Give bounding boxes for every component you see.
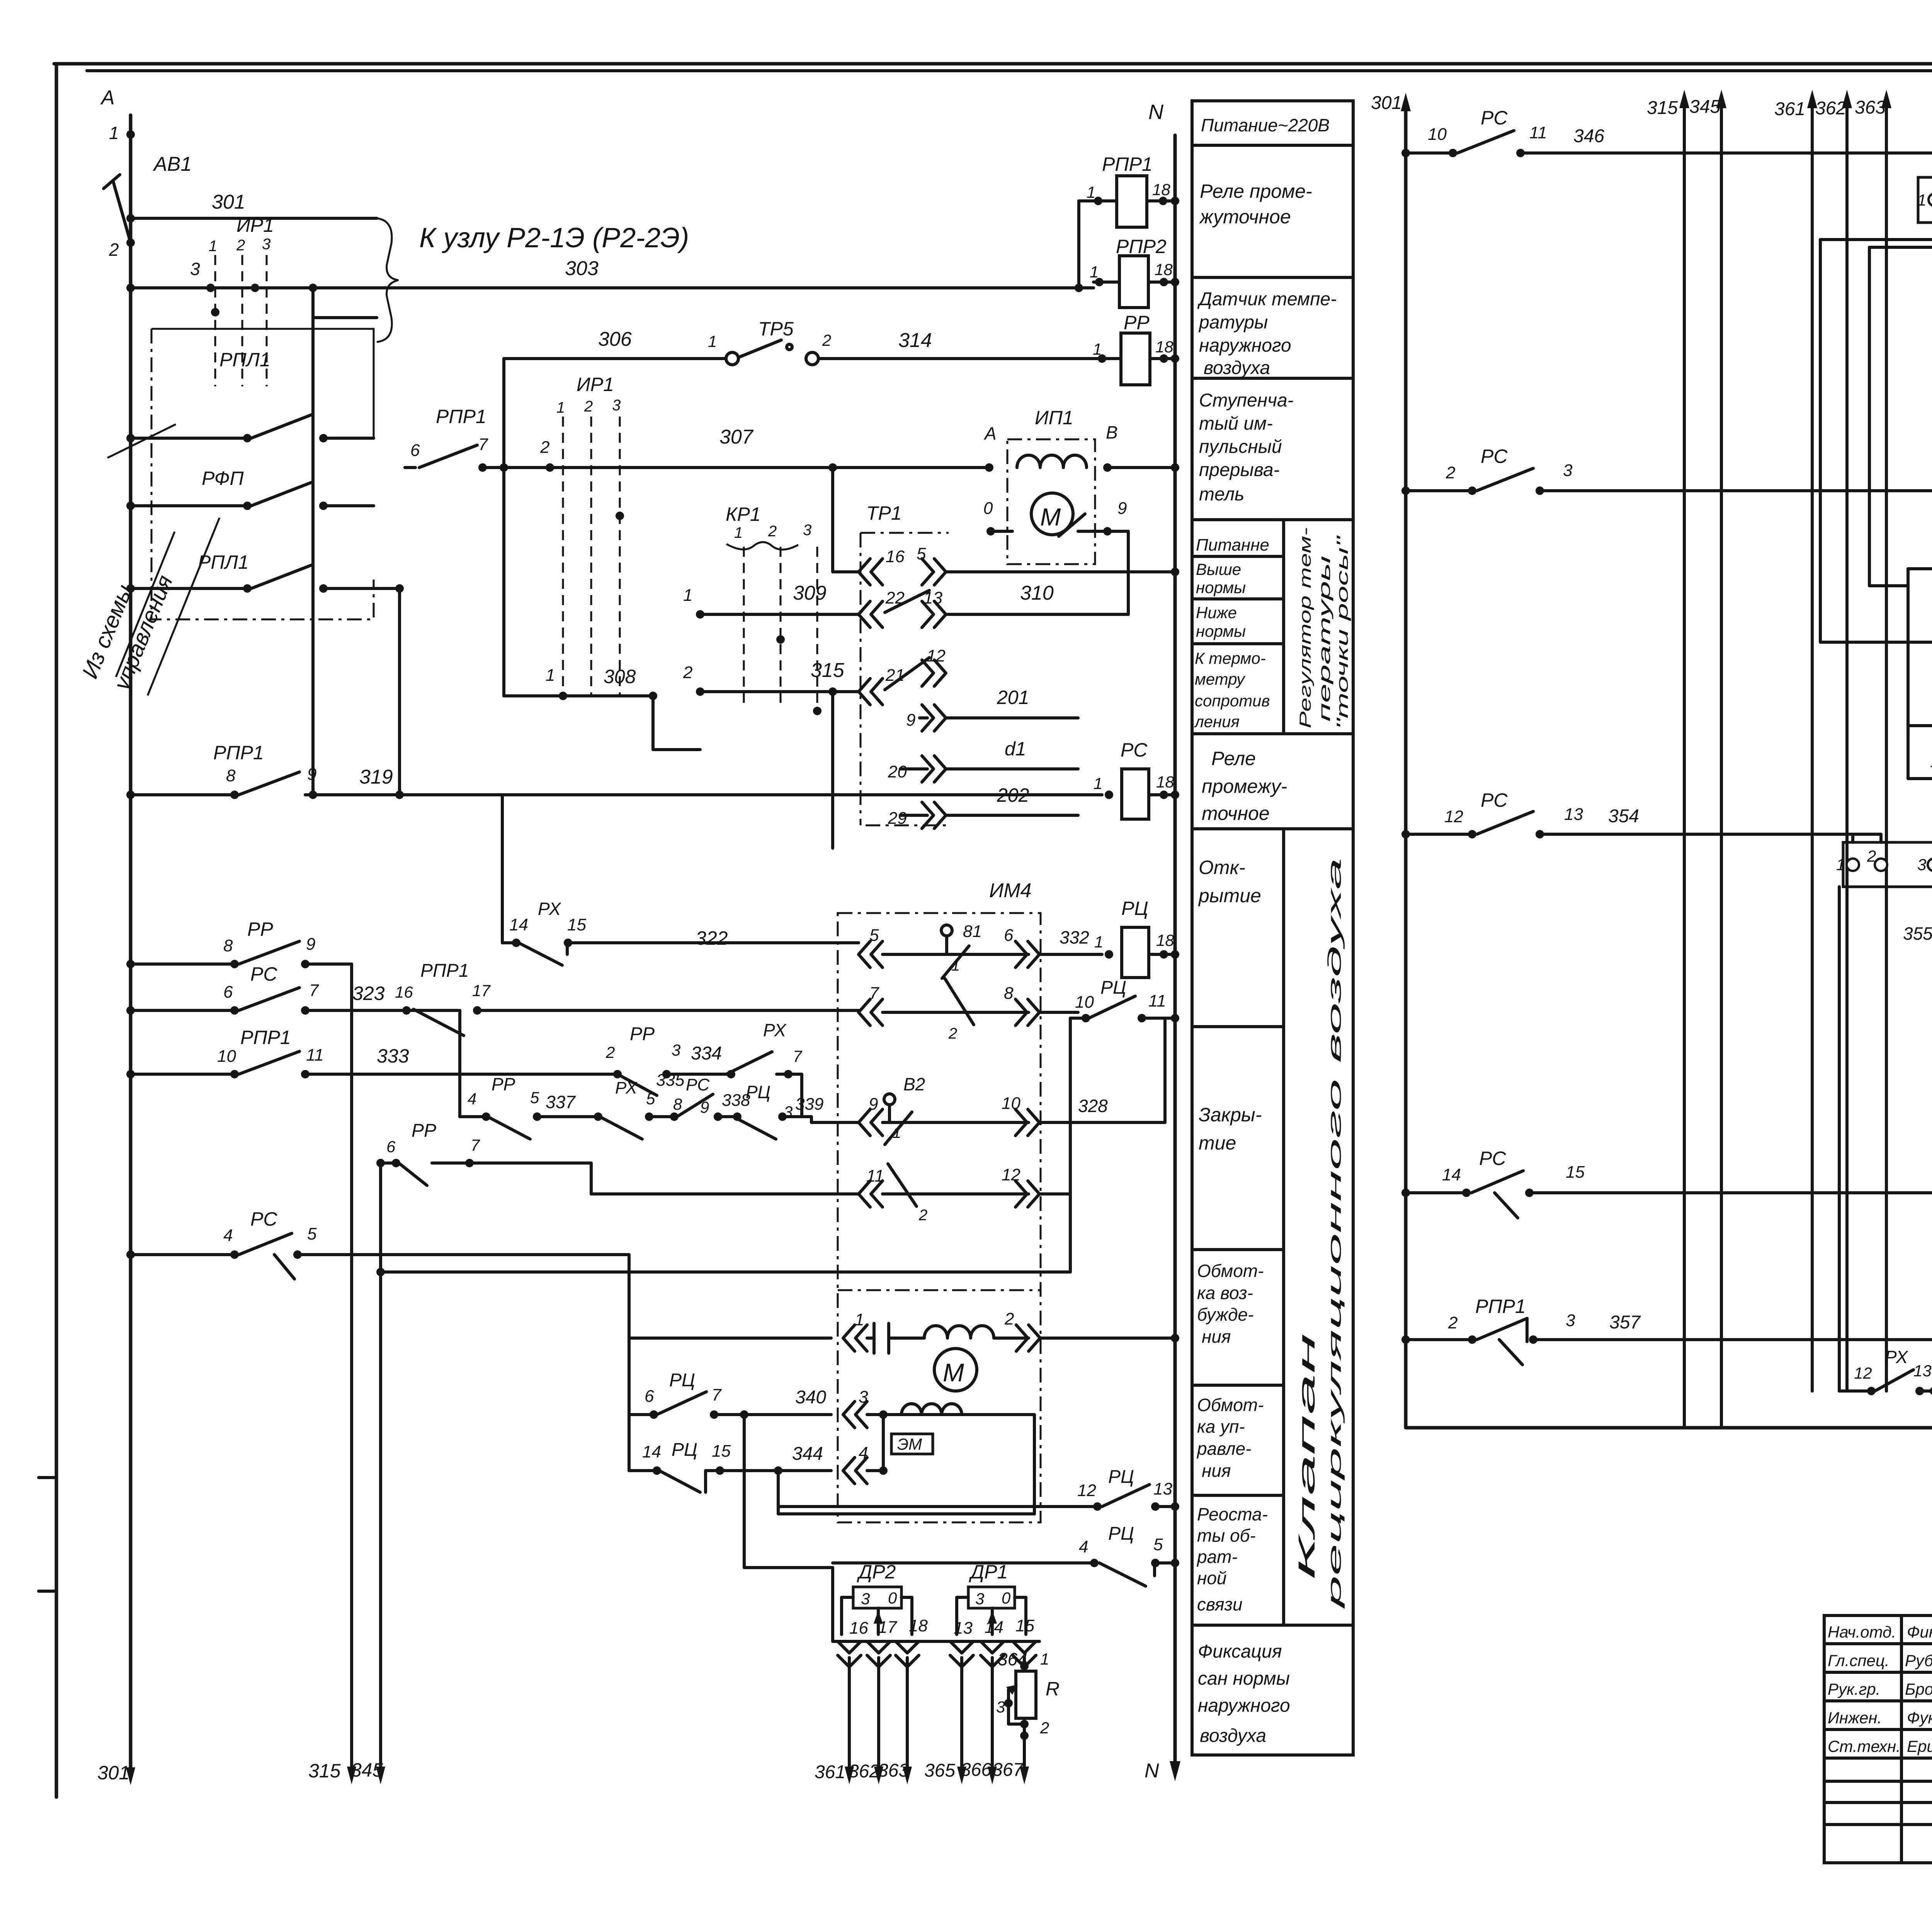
svg-text:РС: РС <box>686 1075 710 1094</box>
svg-text:18: 18 <box>1155 338 1173 356</box>
svg-text:ТР1: ТР1 <box>866 502 902 524</box>
wire d1 <box>946 738 1078 769</box>
terminal strip Бр2 <box>1836 842 1932 887</box>
bus N (left half) <box>1145 100 1180 1782</box>
svg-text:3: 3 <box>1563 461 1573 480</box>
switch АВ1 <box>104 153 192 243</box>
wire 310 <box>946 531 1128 614</box>
svg-text:310: 310 <box>1020 582 1054 604</box>
svg-text:Реоста-: Реоста- <box>1197 1504 1268 1524</box>
relay contact РН (6,7) + wire 352 <box>1908 682 1932 741</box>
svg-text:Датчик темпе-: Датчик темпе- <box>1197 289 1337 309</box>
rotated note Из схемы управления <box>77 518 219 696</box>
valve block ИМ4 <box>838 879 1041 1522</box>
svg-text:2: 2 <box>1446 463 1455 482</box>
relay contact block ИР1 (upper) <box>190 214 274 386</box>
bus A (left vertical supply line) <box>129 115 133 1776</box>
svg-text:303: 303 <box>565 257 599 280</box>
svg-text:РР: РР <box>630 1024 655 1044</box>
svg-text:16: 16 <box>886 547 905 566</box>
svg-text:воздуха: воздуха <box>1200 1726 1266 1746</box>
wire 314 <box>818 329 1121 359</box>
svg-text:Ст.техн.: Ст.техн. <box>1828 1737 1901 1755</box>
relay coil РПР1 (top right) <box>1079 153 1175 288</box>
relay coil РЦ <box>1094 898 1175 978</box>
svg-text:11: 11 <box>1148 991 1166 1010</box>
relay contact РС (6,7) + wire 323 <box>126 963 402 1015</box>
svg-text:4: 4 <box>468 1090 476 1108</box>
svg-text:2: 2 <box>540 438 549 457</box>
РХ contact (14,15) + wire 322 <box>502 795 859 965</box>
svg-text:0: 0 <box>983 499 993 518</box>
svg-text:N: N <box>1145 1760 1159 1782</box>
svg-text:333: 333 <box>377 1045 409 1067</box>
svg-text:тель: тель <box>1199 484 1244 505</box>
svg-text:18: 18 <box>1156 931 1174 949</box>
svg-text:РХ: РХ <box>615 1078 638 1097</box>
svg-text:РЦ: РЦ <box>1100 978 1126 998</box>
wire 364 + resistor R <box>996 1649 1060 1750</box>
svg-text:3: 3 <box>861 1590 870 1608</box>
svg-text:Ерина: Ерина <box>1907 1737 1932 1755</box>
svg-text:ка уп-: ка уп- <box>1197 1417 1245 1437</box>
svg-text:1: 1 <box>1040 1650 1049 1668</box>
ИМ4 row: chevron5 switch81 chevron6 wire 332 <box>859 922 1102 978</box>
svg-text:РС: РС <box>250 963 277 985</box>
svg-text:РС: РС <box>1481 789 1508 811</box>
svg-text:10: 10 <box>217 1047 236 1066</box>
svg-text:РЦ: РЦ <box>1108 1524 1134 1544</box>
svg-text:равле-: равле- <box>1196 1439 1252 1459</box>
svg-text:3: 3 <box>672 1041 680 1059</box>
svg-text:6: 6 <box>645 1387 654 1406</box>
svg-text:РПР1: РПР1 <box>213 742 264 764</box>
wire 307 <box>504 426 989 472</box>
svg-text:Отк-: Отк- <box>1199 857 1245 878</box>
svg-text:366: 366 <box>961 1760 992 1780</box>
wire 362 down arrow <box>849 1658 883 1784</box>
wires 355 356 below Бр2 <box>1903 887 1932 974</box>
svg-text:2: 2 <box>236 237 245 254</box>
svg-text:6: 6 <box>410 441 420 460</box>
svg-text:Инжен.: Инжен. <box>1828 1709 1882 1727</box>
svg-text:бужде-: бужде- <box>1197 1304 1253 1325</box>
ИМ4 row: chevron11 slash2 chevron12 <box>859 1164 1070 1224</box>
svg-text:361: 361 <box>1774 99 1805 119</box>
svg-text:точное: точное <box>1202 803 1270 824</box>
svg-text:4: 4 <box>859 1444 868 1462</box>
svg-text:7: 7 <box>309 981 319 1000</box>
svg-text:РР: РР <box>492 1074 515 1094</box>
svg-text:ТР5: ТР5 <box>758 318 794 340</box>
svg-text:9: 9 <box>906 711 915 730</box>
svg-text:ИМ4: ИМ4 <box>989 879 1031 902</box>
relay contact РР (6,7) feeder <box>376 1121 859 1194</box>
solenoid ЭМ <box>883 1415 933 1471</box>
svg-text:1: 1 <box>1087 183 1095 201</box>
middle legend table <box>1192 101 1353 1755</box>
svg-text:ИП1: ИП1 <box>1035 407 1073 429</box>
svg-text:прерыва-: прерыва- <box>1199 460 1280 480</box>
svg-text:ния: ния <box>1202 1326 1231 1347</box>
relay contact РФП <box>126 468 374 510</box>
svg-text:3: 3 <box>262 236 270 253</box>
relay coil РПР2 <box>1090 236 1175 308</box>
svg-text:РХ: РХ <box>763 1020 787 1040</box>
svg-text:М: М <box>943 1358 964 1387</box>
svg-text:промежу-: промежу- <box>1202 775 1287 797</box>
relay contact РЦ (12,13) <box>778 1467 1175 1511</box>
wire 367 down arrow <box>992 1750 1029 1784</box>
svg-text:5: 5 <box>530 1088 539 1107</box>
svg-text:322: 322 <box>696 927 728 949</box>
svg-text:2: 2 <box>768 523 777 540</box>
svg-text:РПР1: РПР1 <box>436 406 486 427</box>
svg-text:5: 5 <box>646 1090 655 1108</box>
svg-text:Бронштейн: Бронштейн <box>1905 1680 1932 1698</box>
svg-text:К термо-: К термо- <box>1195 649 1266 667</box>
wire 315 <box>683 659 859 848</box>
wire 201 <box>946 687 1078 718</box>
svg-text:345: 345 <box>351 1759 383 1781</box>
svg-text:2: 2 <box>918 1207 927 1224</box>
svg-text:3: 3 <box>975 1590 984 1608</box>
svg-text:14: 14 <box>985 1618 1003 1637</box>
relay contact РС (2,3) <box>1401 446 1932 495</box>
svg-text:6: 6 <box>386 1138 396 1156</box>
svg-text:337: 337 <box>546 1092 576 1112</box>
svg-text:А: А <box>983 423 997 444</box>
svg-text:18: 18 <box>1152 180 1170 199</box>
svg-text:315: 315 <box>811 659 845 682</box>
svg-text:рат-: рат- <box>1196 1547 1238 1567</box>
svg-text:Питанне: Питанне <box>1196 536 1269 554</box>
svg-text:РХ: РХ <box>1885 1347 1909 1367</box>
svg-text:РПЛ1: РПЛ1 <box>219 349 270 371</box>
wire 361 vertical (right) <box>1774 90 1817 1391</box>
svg-text:2: 2 <box>584 398 593 415</box>
svg-text:201: 201 <box>997 687 1029 708</box>
svg-text:сопротив: сопротив <box>1195 692 1270 710</box>
svg-text:РС: РС <box>250 1208 277 1230</box>
svg-text:306: 306 <box>598 328 632 350</box>
svg-text:309: 309 <box>793 582 827 604</box>
svg-text:8: 8 <box>673 1095 682 1113</box>
wire 309 <box>683 582 859 619</box>
svg-text:жуточное: жуточное <box>1199 206 1291 228</box>
svg-text:363: 363 <box>878 1760 909 1781</box>
relay contact РПЛ1 (upper) <box>126 349 374 442</box>
svg-text:354: 354 <box>1608 806 1639 826</box>
svg-text:Ниже: Ниже <box>1196 604 1237 622</box>
svg-text:РС: РС <box>1479 1148 1506 1169</box>
svg-text:3: 3 <box>803 522 811 539</box>
svg-text:1: 1 <box>683 586 692 605</box>
svg-text:314: 314 <box>898 329 932 352</box>
svg-text:Рубчинский: Рубчинский <box>1905 1651 1932 1670</box>
svg-text:3: 3 <box>612 397 621 414</box>
svg-text:1: 1 <box>109 123 119 143</box>
svg-text:РПР1: РПР1 <box>1475 1296 1526 1317</box>
svg-text:наружного: наружного <box>1198 1695 1290 1716</box>
svg-text:Нач.отд.: Нач.отд. <box>1828 1623 1896 1641</box>
svg-text:рытие: рытие <box>1198 885 1261 906</box>
svg-text:16: 16 <box>395 983 413 1001</box>
svg-text:357: 357 <box>1609 1312 1641 1333</box>
svg-text:1: 1 <box>855 1310 864 1329</box>
feeder loops from БР1 <box>1820 223 1932 642</box>
relay coil РР <box>1093 312 1175 385</box>
svg-text:12: 12 <box>1444 807 1463 826</box>
svg-text:7: 7 <box>869 984 879 1003</box>
svg-text:"точки росы": "точки росы" <box>1333 535 1351 730</box>
svg-text:8: 8 <box>223 936 233 955</box>
svg-text:РПР2: РПР2 <box>1116 236 1167 257</box>
svg-text:334: 334 <box>691 1043 722 1064</box>
wire 306 <box>504 328 726 359</box>
svg-text:10: 10 <box>1075 993 1094 1012</box>
relay contact РС (10,11) + wire 346 <box>1401 107 1932 177</box>
РХ contacts (12,13)(10,11) + wire 358 <box>1839 887 1932 1395</box>
svg-text:1: 1 <box>546 666 555 685</box>
svg-text:7: 7 <box>712 1386 722 1405</box>
svg-text:1: 1 <box>1094 933 1103 951</box>
svg-text:3: 3 <box>190 259 200 279</box>
svg-text:0: 0 <box>888 1589 897 1607</box>
ИМ4 row: chevron9 B2 chevron10 wire 328 <box>859 1074 1165 1144</box>
relay contact РР (8,9) <box>126 918 352 968</box>
svg-text:воздуха: воздуха <box>1204 358 1270 378</box>
wire 308 <box>504 666 700 750</box>
svg-text:6: 6 <box>1004 926 1014 945</box>
svg-text:1: 1 <box>708 332 717 350</box>
wire 362 vertical (right) <box>1815 90 1852 1391</box>
wire 365 down arrow <box>924 1658 966 1784</box>
svg-text:9: 9 <box>1117 499 1127 518</box>
svg-text:Клапан: Клапан <box>1294 1333 1320 1580</box>
svg-text:5: 5 <box>869 926 879 945</box>
controller ТР1 <box>833 468 1175 828</box>
relay contact РПР1 (2,3) + wire 357 <box>1401 1296 1932 1391</box>
svg-text:РПР1: РПР1 <box>420 961 469 981</box>
svg-text:РР: РР <box>1124 312 1150 333</box>
ИМ4 motor feeder vertical <box>628 1255 631 1471</box>
svg-text:РЦ: РЦ <box>672 1440 697 1460</box>
svg-text:R: R <box>1046 1678 1060 1700</box>
svg-text:319: 319 <box>359 766 393 788</box>
page border frame <box>54 62 1932 66</box>
svg-text:13: 13 <box>954 1619 973 1638</box>
wire 301 <box>126 191 377 223</box>
svg-text:d1: d1 <box>1005 738 1026 760</box>
svg-text:Реле: Реле <box>1211 748 1256 769</box>
wire 315 long vertical to bottom arrow <box>308 964 356 1784</box>
svg-text:РХ: РХ <box>538 899 562 919</box>
svg-text:3: 3 <box>859 1388 868 1406</box>
svg-text:ЭМ: ЭМ <box>897 1435 922 1453</box>
ИМ6 row chevron11 slash chevron12 <box>1908 520 1932 779</box>
svg-text:ния: ния <box>1202 1461 1231 1481</box>
relay contact block КР1 <box>726 503 821 715</box>
svg-text:3: 3 <box>1917 855 1926 874</box>
svg-text:рециркуляционного воздуха: рециркуляционного воздуха <box>1325 858 1345 1610</box>
svg-text:РС: РС <box>1481 446 1508 467</box>
svg-text:13: 13 <box>1153 1479 1172 1498</box>
svg-text:346: 346 <box>1573 126 1604 146</box>
svg-text:связи: связи <box>1197 1594 1243 1614</box>
svg-text:14: 14 <box>509 915 528 934</box>
svg-text:ДР2: ДР2 <box>857 1561 896 1583</box>
svg-text:12: 12 <box>1854 1364 1872 1382</box>
svg-text:3: 3 <box>996 1698 1005 1716</box>
svg-text:2: 2 <box>605 1043 615 1061</box>
svg-text:РЦ: РЦ <box>669 1370 695 1391</box>
svg-text:20: 20 <box>888 762 907 781</box>
svg-text:301: 301 <box>1371 93 1402 113</box>
svg-text:29: 29 <box>888 809 907 828</box>
svg-text:12: 12 <box>1002 1165 1020 1184</box>
svg-text:Гл.спец.: Гл.спец. <box>1828 1651 1889 1670</box>
ИМ4 motor row: chevron1 capacitor coil chevron2 <box>629 1309 1175 1353</box>
svg-text:Питание~220В: Питание~220В <box>1201 115 1330 135</box>
svg-text:315: 315 <box>1647 98 1678 118</box>
svg-text:ка воз-: ка воз- <box>1197 1283 1253 1303</box>
svg-text:344: 344 <box>792 1444 823 1464</box>
svg-text:307: 307 <box>719 426 754 448</box>
signature table <box>1824 1616 1932 1863</box>
svg-text:ной: ной <box>1197 1568 1226 1588</box>
relay contact РЦ (6,7) + wire 340 <box>629 1370 1034 1514</box>
svg-text:2: 2 <box>948 1025 957 1042</box>
svg-text:В: В <box>1106 422 1118 442</box>
svg-text:4: 4 <box>1079 1537 1088 1556</box>
svg-text:17: 17 <box>878 1618 897 1637</box>
svg-text:2: 2 <box>822 331 831 349</box>
frame centre tick marks <box>39 1478 56 1591</box>
svg-text:11: 11 <box>306 1046 324 1065</box>
svg-text:К узлу Р2-1Э (Р2-2Э): К узлу Р2-1Э (Р2-2Э) <box>419 223 689 253</box>
relay contact РЦ (10,11) <box>1070 978 1175 1194</box>
terminal strip БР1 <box>1917 175 1932 223</box>
svg-text:Ступенча-: Ступенча- <box>1199 390 1294 411</box>
svg-text:315: 315 <box>308 1760 341 1782</box>
svg-text:15: 15 <box>567 915 586 934</box>
svg-text:Рук.гр.: Рук.гр. <box>1828 1680 1880 1698</box>
svg-text:363: 363 <box>1855 97 1886 118</box>
damper ДР2 <box>842 1561 912 1634</box>
svg-text:1: 1 <box>209 238 217 255</box>
svg-text:Обмот-: Обмот- <box>1197 1395 1264 1415</box>
svg-text:А: А <box>100 87 115 109</box>
svg-text:РПР1: РПР1 <box>1102 153 1153 175</box>
svg-text:15: 15 <box>1566 1163 1585 1182</box>
vertical feeder from wire 306 down <box>502 359 505 696</box>
svg-text:пературы: пературы <box>1315 556 1333 722</box>
svg-text:1: 1 <box>1090 263 1099 281</box>
svg-text:2: 2 <box>683 663 692 682</box>
svg-text:1: 1 <box>1917 191 1926 209</box>
svg-text:4: 4 <box>223 1226 233 1245</box>
svg-text:АВ1: АВ1 <box>153 153 192 175</box>
svg-text:6: 6 <box>223 983 233 1002</box>
relay contact РС (14,15) <box>1401 1148 1932 1218</box>
svg-text:11: 11 <box>1529 123 1547 142</box>
svg-text:1: 1 <box>734 524 743 541</box>
svg-text:РФП: РФП <box>202 468 244 489</box>
relay contact РС (12,13) + wire 354 <box>1401 789 1881 842</box>
svg-text:18: 18 <box>909 1616 928 1635</box>
svg-text:339: 339 <box>795 1095 823 1114</box>
svg-text:3: 3 <box>1566 1311 1575 1330</box>
svg-text:301: 301 <box>97 1762 129 1784</box>
svg-text:ДР1: ДР1 <box>969 1561 1008 1583</box>
stepper motor ИП1 <box>983 407 1175 614</box>
svg-text:355: 355 <box>1903 923 1932 944</box>
svg-text:ты об-: ты об- <box>1197 1525 1256 1546</box>
svg-text:N: N <box>1148 100 1164 124</box>
svg-text:1: 1 <box>893 1124 901 1141</box>
damper ДР1 <box>957 1561 1026 1634</box>
switch ТР5 <box>708 318 831 365</box>
vertical from 303 to 319 <box>311 288 315 795</box>
svg-text:1: 1 <box>1094 774 1102 792</box>
svg-text:11: 11 <box>866 1167 884 1185</box>
svg-text:362: 362 <box>1815 98 1846 119</box>
svg-text:2: 2 <box>1004 1309 1014 1328</box>
svg-text:2: 2 <box>109 240 119 260</box>
svg-text:362: 362 <box>849 1761 879 1782</box>
svg-text:ИР1: ИР1 <box>577 374 614 395</box>
relay contact РПР1 (8,9) and wire 319 <box>126 742 1102 799</box>
svg-text:2: 2 <box>1448 1313 1458 1332</box>
wire 345 long vertical to bottom arrow <box>351 1163 385 1784</box>
svg-text:Выше: Выше <box>1196 560 1241 578</box>
svg-text:18: 18 <box>1156 773 1174 791</box>
svg-text:РС: РС <box>1481 107 1508 129</box>
svg-text:8: 8 <box>226 766 236 785</box>
svg-text:Фингер: Фингер <box>1907 1623 1932 1641</box>
svg-text:наружного: наружного <box>1199 335 1291 356</box>
svg-text:12: 12 <box>927 646 946 665</box>
svg-text:14: 14 <box>1442 1165 1461 1184</box>
svg-text:Регулятор тем-: Регулятор тем- <box>1296 527 1314 728</box>
svg-text:1: 1 <box>951 957 960 974</box>
relay contact РПР1 (10,11) + wire 333 <box>126 1027 617 1078</box>
svg-text:15: 15 <box>712 1442 731 1461</box>
svg-text:РЦ: РЦ <box>746 1082 770 1102</box>
svg-text:15: 15 <box>1015 1616 1034 1635</box>
svg-text:ления: ления <box>1194 713 1240 731</box>
svg-text:ИР1: ИР1 <box>236 214 274 236</box>
svg-text:361: 361 <box>815 1762 845 1782</box>
svg-text:РР: РР <box>247 918 273 940</box>
svg-text:метру: метру <box>1195 670 1246 688</box>
wire 363 vertical (right) <box>1855 90 1891 1391</box>
svg-text:2: 2 <box>1040 1719 1049 1737</box>
svg-text:323: 323 <box>352 983 385 1004</box>
svg-text:5: 5 <box>307 1224 317 1243</box>
relay coil РС <box>1094 739 1175 819</box>
svg-text:328: 328 <box>1078 1096 1108 1116</box>
relay contact РПЛ1 (lower) <box>126 551 404 795</box>
svg-text:5: 5 <box>1153 1535 1163 1554</box>
relay contact РС (4,5) <box>126 1208 629 1279</box>
svg-text:7: 7 <box>793 1047 803 1065</box>
wire 345 vertical (right) <box>1689 90 1726 1428</box>
svg-text:РС: РС <box>1121 739 1148 761</box>
svg-text:13: 13 <box>1564 805 1583 824</box>
svg-text:8: 8 <box>1004 984 1014 1003</box>
